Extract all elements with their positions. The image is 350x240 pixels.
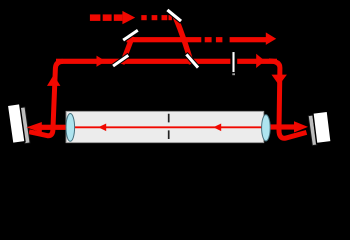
rod center dashed marker <box>168 114 170 140</box>
lens right <box>262 115 271 141</box>
fold mirror A <box>166 8 183 23</box>
right riser down arrowhead <box>272 75 287 86</box>
right end-mirror gray plate <box>308 115 317 145</box>
seed dashes to mirror A <box>141 15 146 20</box>
left end-mirror gray plate <box>20 107 30 144</box>
shutter / etalon tick on lower beam <box>232 52 235 73</box>
lower horizontal beam <box>56 59 230 64</box>
right end-mirror face <box>313 111 331 143</box>
lower beam right arrowhead <box>256 54 265 68</box>
left riser beam (mirror band, curve up, riser, top corner) <box>29 61 63 135</box>
beam from rod to right mirror (horizontal + head) <box>268 124 295 129</box>
left riser up arrowhead <box>47 75 60 86</box>
intracavity arrow left1 <box>98 124 106 132</box>
fold mirror D <box>185 53 200 70</box>
lens left <box>66 114 75 142</box>
lower beam left arrowhead <box>97 56 106 67</box>
shutter base tick <box>232 73 235 75</box>
upper beam output arrowhead <box>266 32 276 45</box>
diagonal beam mirror C to mirror B <box>122 37 133 65</box>
intracavity arrow left2 <box>213 124 221 132</box>
fold mirror B <box>122 28 140 42</box>
beam from left mirror to rod (horizontal + head) <box>40 125 67 130</box>
input seed arrow (dashed thick) <box>90 14 101 21</box>
fold mirror C <box>112 53 130 68</box>
diagonal beam mirror A to mirror D <box>175 16 192 64</box>
amplifier rod (tube) <box>66 111 264 142</box>
left end-mirror face <box>7 104 25 144</box>
right riser beam (top corner, riser, curve, band to mirror) <box>269 61 307 138</box>
upper horizontal beam <box>127 37 202 42</box>
intracavity thin beam <box>71 126 263 128</box>
